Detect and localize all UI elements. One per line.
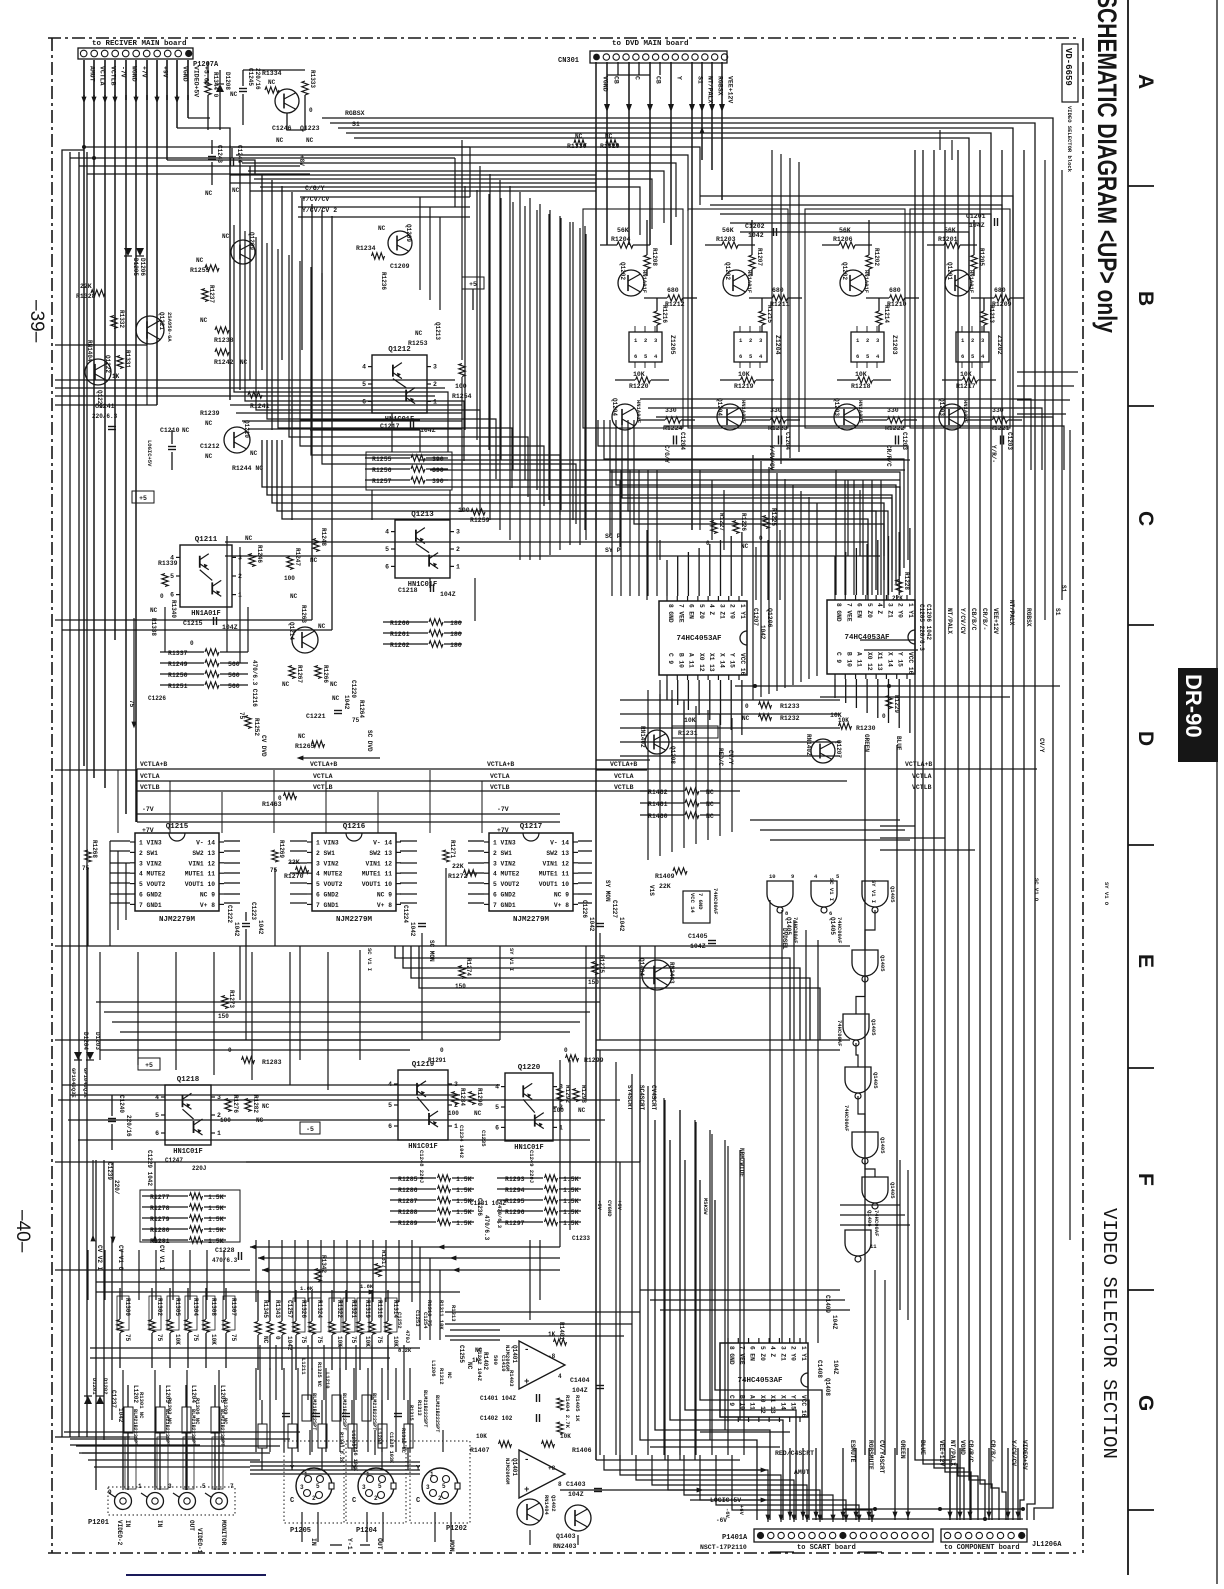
svg-text:75: 75	[192, 1334, 199, 1342]
svg-text:SC DVD: SC DVD	[366, 730, 373, 752]
svg-text:7 GND1: 7 GND1	[493, 902, 516, 909]
svg-text:P1201: P1201	[88, 1519, 109, 1527]
svg-text:HN1C01F: HN1C01F	[173, 1148, 202, 1156]
svg-text:B 10: B 10	[845, 652, 852, 667]
svg-text:HN1A01F: HN1A01F	[863, 270, 870, 293]
svg-text:VCTLA: VCTLA	[140, 773, 160, 780]
svg-text:2: 2	[749, 337, 752, 344]
svg-text:V+ 8: V+ 8	[200, 902, 215, 909]
svg-text:NJM2279M: NJM2279M	[159, 916, 196, 924]
svg-text:B: B	[1134, 291, 1157, 306]
svg-text:R1272: R1272	[448, 873, 468, 880]
svg-text:R1291: R1291	[428, 1057, 446, 1064]
svg-text:1042: 1042	[748, 232, 764, 239]
svg-text:2: 2	[312, 1495, 316, 1502]
svg-text:22K: 22K	[892, 595, 903, 602]
svg-text:R1334: R1334	[262, 70, 282, 77]
svg-text:R1269: R1269	[278, 840, 285, 858]
svg-text:RGBSMUTE: RGBSMUTE	[867, 1440, 874, 1470]
svg-text:R1249: R1249	[168, 661, 188, 668]
svg-text:VIDEO SELECTOR block: VIDEO SELECTOR block	[1066, 106, 1073, 173]
svg-text:1.5K: 1.5K	[208, 1205, 224, 1212]
svg-text:1: 1	[454, 1123, 458, 1130]
svg-text:C1205 220/6.3: C1205 220/6.3	[918, 604, 925, 651]
svg-text:R1204: R1204	[611, 236, 631, 243]
svg-text:X 14: X 14	[779, 1395, 786, 1410]
svg-text:R1318: R1318	[376, 1300, 383, 1318]
svg-text:C1245: C1245	[247, 68, 254, 86]
svg-text:Y: Y	[676, 76, 683, 80]
svg-text:560: 560	[228, 683, 240, 690]
svg-text:10K: 10K	[960, 371, 972, 378]
svg-text:6 GND2: 6 GND2	[316, 892, 339, 899]
svg-text:Q1217: Q1217	[520, 823, 543, 831]
svg-text:1042: 1042	[409, 922, 416, 937]
svg-text:GREEN: GREEN	[899, 1440, 906, 1459]
svg-text:11: 11	[870, 1243, 877, 1250]
svg-text:-7V: -7V	[497, 806, 509, 813]
svg-text:Q1223: Q1223	[300, 125, 320, 132]
svg-text:D1205: D1205	[132, 258, 139, 276]
svg-text:0: 0	[190, 640, 194, 647]
svg-text:10K: 10K	[174, 1334, 181, 1345]
svg-text:1: 1	[138, 1483, 142, 1490]
svg-text:NC: NC	[466, 1362, 473, 1370]
svg-text:1 VIN3: 1 VIN3	[139, 840, 162, 847]
svg-text:R1237: R1237	[208, 285, 215, 303]
svg-text:0: 0	[160, 593, 164, 600]
svg-text:3: 3	[456, 529, 460, 536]
svg-text:NJM2066M: NJM2066M	[504, 1458, 511, 1485]
svg-text:RN1402: RN1402	[805, 734, 812, 756]
svg-text:NC: NC	[182, 427, 190, 434]
svg-text:to COMPONENT board: to COMPONENT board	[944, 1544, 1020, 1552]
svg-text:NC: NC	[290, 593, 298, 600]
svg-text:R1462: R1462	[648, 789, 668, 796]
svg-text:C1220: C1220	[350, 680, 357, 698]
svg-text:BLM21B222SPT: BLM21B222SPT	[132, 1409, 138, 1446]
svg-text:to DVD MAIN board: to DVD MAIN board	[612, 40, 689, 48]
svg-text:1.5K: 1.5K	[456, 1176, 472, 1183]
svg-text:V+ 8: V+ 8	[554, 902, 569, 909]
svg-text:NJM2279M: NJM2279M	[336, 916, 373, 924]
svg-text:104Z: 104Z	[568, 1491, 584, 1498]
svg-text:R1247: R1247	[294, 548, 301, 566]
svg-text:to RECIVER MAIN board: to RECIVER MAIN board	[92, 40, 187, 48]
svg-text:10K: 10K	[684, 717, 696, 724]
svg-text:SC V1 O: SC V1 O	[1033, 878, 1040, 902]
svg-text:220/16: 220/16	[125, 1115, 132, 1137]
svg-text:R1248: R1248	[320, 528, 327, 546]
svg-text:R1305: R1305	[174, 1298, 181, 1316]
svg-text:NC: NC	[232, 187, 240, 194]
svg-text:1 VIN3: 1 VIN3	[493, 840, 516, 847]
svg-text:220J: 220J	[192, 1165, 206, 1172]
svg-text:R1233: R1233	[780, 703, 800, 710]
svg-text:D: D	[1134, 731, 1157, 746]
svg-text:NC: NC	[268, 79, 276, 86]
svg-text:R1238: R1238	[214, 337, 234, 344]
svg-text:C: C	[416, 1497, 420, 1505]
svg-text:1K: 1K	[548, 1331, 556, 1338]
svg-text:R1232: R1232	[780, 715, 800, 722]
svg-text:BLUE: BLUE	[919, 1440, 926, 1455]
svg-text:C1409: C1409	[824, 1295, 831, 1313]
svg-text:R1239: R1239	[200, 410, 220, 417]
svg-text:SY MON: SY MON	[604, 880, 611, 902]
svg-text:8: 8	[558, 1481, 562, 1488]
svg-text:R1300: R1300	[124, 1298, 131, 1316]
svg-text:56K: 56K	[944, 227, 956, 234]
svg-text:SW2 13: SW2 13	[369, 850, 392, 857]
svg-text:R1213: R1213	[988, 305, 995, 323]
svg-text:5 Z0: 5 Z0	[866, 603, 873, 618]
svg-text:74HC4053AF: 74HC4053AF	[676, 635, 722, 643]
svg-text:Z1205: Z1205	[669, 335, 676, 355]
svg-text:F: F	[1134, 1173, 1157, 1186]
svg-text:Q1405: Q1405	[872, 1072, 879, 1089]
svg-text:Q1404: Q1404	[638, 958, 645, 976]
svg-text:R1277: R1277	[150, 1194, 170, 1201]
svg-text:RGBSX: RGBSX	[345, 110, 365, 117]
svg-text:C1257: C1257	[286, 1300, 293, 1318]
svg-text:8 GND: 8 GND	[835, 603, 842, 622]
svg-text:P1205: P1205	[290, 1527, 311, 1535]
svg-text:R1404 2.7K: R1404 2.7K	[564, 1395, 571, 1429]
svg-text:1 VIN3: 1 VIN3	[316, 840, 339, 847]
svg-text:6 EN: 6 EN	[856, 603, 863, 618]
svg-text:V- 14: V- 14	[196, 840, 215, 847]
svg-text:1K: 1K	[112, 373, 120, 380]
svg-text:A 11: A 11	[688, 653, 695, 668]
svg-text:R1328: R1328	[76, 293, 96, 300]
svg-text:220/: 220/	[113, 1180, 120, 1195]
svg-text:C1241: C1241	[95, 403, 115, 410]
svg-text:C1221: C1221	[306, 713, 326, 720]
svg-text:R1340: R1340	[170, 600, 177, 618]
svg-text:R1216: R1216	[661, 305, 668, 323]
svg-text:-6V: -6V	[716, 1517, 727, 1524]
svg-text:R1250: R1250	[168, 672, 188, 679]
svg-text:3 Z1: 3 Z1	[718, 604, 725, 619]
svg-text:180: 180	[450, 631, 462, 638]
svg-text:R1278: R1278	[150, 1205, 170, 1212]
svg-text:VCTLA: VCTLA	[490, 773, 510, 780]
svg-text:SW2 13: SW2 13	[546, 850, 569, 857]
svg-text:R1409: R1409	[655, 873, 675, 880]
svg-text:C1224: C1224	[402, 905, 409, 923]
svg-text:8 GND: 8 GND	[667, 604, 674, 623]
svg-text:1.5K: 1.5K	[563, 1187, 579, 1194]
svg-text:VIN1 12: VIN1 12	[543, 860, 570, 867]
svg-text:NC: NC	[205, 420, 213, 427]
svg-text:JL1206A: JL1206A	[1032, 1541, 1062, 1549]
svg-text:C1238 103K: C1238 103K	[388, 1432, 394, 1464]
svg-text:22K: 22K	[659, 883, 671, 890]
svg-text:Q1213: Q1213	[434, 322, 441, 340]
svg-text:2: 2	[644, 337, 647, 344]
svg-text:Y 15: Y 15	[897, 652, 904, 667]
svg-text:V- 14: V- 14	[550, 840, 569, 847]
svg-text:NC: NC	[262, 1103, 270, 1110]
svg-text:C1215: C1215	[183, 620, 203, 627]
svg-text:R1220: R1220	[629, 383, 649, 390]
svg-text:1.8K: 1.8K	[300, 1285, 314, 1292]
svg-text:Q1201: Q1201	[946, 262, 953, 280]
svg-text:Q1222: Q1222	[104, 355, 111, 373]
svg-text:NC: NC	[230, 91, 238, 98]
svg-text:R1257: R1257	[372, 478, 392, 485]
svg-text:CV DVD: CV DVD	[260, 735, 267, 757]
svg-text:560: 560	[228, 672, 240, 679]
svg-text:to SCART board: to SCART board	[797, 1544, 856, 1552]
svg-text:L1210: L1210	[324, 1372, 331, 1389]
svg-text:VCC 14: VCC 14	[689, 893, 696, 914]
svg-text:75: 75	[238, 712, 245, 720]
svg-text:MUTE1 11: MUTE1 11	[539, 871, 569, 878]
svg-text:NC: NC	[245, 535, 253, 542]
svg-text:75: 75	[156, 1334, 163, 1342]
svg-text:NC: NC	[282, 681, 290, 688]
svg-text:CB/B/C: CB/B/C	[970, 608, 977, 631]
svg-text:R1268: R1268	[91, 840, 98, 858]
svg-text:104Z: 104Z	[440, 591, 456, 598]
svg-text:Q1216: Q1216	[343, 823, 366, 831]
svg-text:500: 500	[492, 1355, 499, 1365]
svg-text:3 Z1: 3 Z1	[779, 1346, 786, 1361]
svg-text:VOUT1 10: VOUT1 10	[185, 881, 215, 888]
svg-text:Q1213: Q1213	[411, 511, 434, 519]
svg-text:Q1204: Q1204	[716, 398, 723, 416]
svg-text:ESMUTE: ESMUTE	[849, 1440, 856, 1463]
svg-text:C1405: C1405	[688, 933, 708, 940]
svg-text:R1284: R1284	[459, 1088, 466, 1106]
svg-text:R1461: R1461	[648, 801, 668, 808]
svg-text:5 Z0: 5 Z0	[698, 604, 705, 619]
svg-text:CR/B/-: CR/B/-	[981, 608, 988, 630]
svg-text:22K: 22K	[452, 863, 464, 870]
svg-text:5: 5	[378, 1483, 382, 1490]
svg-text:NC: NC	[196, 257, 204, 264]
svg-text:3: 3	[300, 1484, 304, 1491]
svg-text:VCTLB: VCTLB	[313, 784, 333, 791]
svg-text:5: 5	[316, 1483, 320, 1490]
svg-text:VCC 16: VCC 16	[800, 1395, 807, 1418]
svg-text:+5: +5	[469, 281, 477, 288]
svg-text:Q1402: Q1402	[550, 1495, 557, 1512]
svg-text:8 GND: 8 GND	[728, 1346, 735, 1365]
svg-text:1042: 1042	[343, 695, 350, 710]
svg-text:X 14: X 14	[718, 653, 725, 668]
svg-text:10K: 10K	[364, 1336, 371, 1347]
svg-text:NC: NC	[742, 715, 750, 722]
svg-text:RN1404: RN1404	[543, 1495, 550, 1516]
svg-text:-: -	[524, 1455, 529, 1465]
svg-text:7 VEE: 7 VEE	[677, 604, 684, 623]
svg-text:R1218: R1218	[851, 383, 871, 390]
svg-text:150: 150	[588, 979, 599, 986]
svg-text:Q1202: Q1202	[841, 262, 848, 280]
svg-text:IN: IN	[156, 1520, 163, 1528]
svg-text:VCTLA: VCTLA	[614, 773, 634, 780]
svg-text:0: 0	[882, 713, 886, 720]
svg-text:C1255: C1255	[458, 1345, 465, 1363]
svg-text:1: 1	[217, 1130, 221, 1137]
svg-text:10K: 10K	[560, 1433, 571, 1440]
svg-text:R1296: R1296	[505, 1209, 525, 1216]
svg-text:HN1A01F: HN1A01F	[746, 270, 753, 293]
svg-text:R1280: R1280	[150, 1227, 170, 1234]
svg-text:VCC 16: VCC 16	[739, 653, 746, 676]
svg-text:1.8K: 1.8K	[360, 1283, 374, 1290]
svg-text:R1316 NC: R1316 NC	[400, 1428, 406, 1453]
svg-text:R1301 NC: R1301 NC	[138, 1392, 145, 1419]
svg-text:5: 5	[362, 381, 366, 388]
svg-text:2 SW1: 2 SW1	[139, 850, 158, 857]
svg-text:6: 6	[385, 563, 389, 570]
svg-text:R1242: R1242	[214, 359, 234, 366]
svg-text:C1228: C1228	[215, 1247, 235, 1254]
svg-text:1 Y1: 1 Y1	[739, 604, 746, 619]
svg-text:R1345: R1345	[262, 1300, 269, 1318]
svg-text:4 Z: 4 Z	[708, 604, 715, 615]
svg-text:+8: +8	[548, 1465, 556, 1472]
svg-text:VEE+12V: VEE+12V	[992, 608, 999, 634]
svg-text:1 Y1: 1 Y1	[907, 603, 914, 618]
svg-text:RN2403: RN2403	[553, 1543, 577, 1550]
svg-text:BLM21B222SPT: BLM21B222SPT	[422, 1390, 428, 1427]
svg-text:SCHEMATIC DIAGRAM <UP> only: SCHEMATIC DIAGRAM <UP> only	[1091, 0, 1121, 333]
svg-text:R1460: R1460	[648, 813, 668, 820]
svg-text:SC4SCRT: SC4SCRT	[638, 1085, 645, 1111]
svg-text:Q1220: Q1220	[518, 1064, 541, 1072]
svg-text:10K: 10K	[210, 1334, 217, 1345]
svg-text:180: 180	[450, 620, 462, 627]
svg-text:C1203: C1203	[901, 432, 908, 450]
svg-text:R1255: R1255	[190, 267, 210, 274]
svg-text:X1 13: X1 13	[708, 653, 715, 672]
svg-text:R1293: R1293	[505, 1176, 525, 1183]
svg-text:BLUE: BLUE	[895, 736, 902, 751]
svg-text:R1274: R1274	[465, 958, 472, 976]
svg-text:P1202: P1202	[446, 1525, 467, 1533]
svg-text:VCTLA+B: VCTLA+B	[487, 761, 514, 768]
svg-text:CVGND: CVGND	[606, 1200, 613, 1217]
svg-text:R1282: R1282	[252, 1095, 259, 1113]
svg-text:0: 0	[274, 1336, 281, 1340]
svg-text:R1256: R1256	[372, 467, 392, 474]
svg-text:R1325 NC: R1325 NC	[316, 1362, 322, 1387]
svg-text:R1285: R1285	[398, 1176, 418, 1183]
svg-text:CV V1 I: CV V1 I	[158, 1245, 165, 1271]
svg-text:7 GND: 7 GND	[697, 893, 704, 910]
svg-text:100: 100	[553, 1107, 564, 1114]
svg-text:Y-1: Y-1	[346, 1538, 353, 1550]
svg-text:C1236: C1236	[476, 1198, 483, 1216]
svg-text:9: 9	[791, 873, 794, 880]
svg-text:5: 5	[202, 1483, 206, 1490]
svg-text:OUT: OUT	[376, 1538, 383, 1550]
svg-text:C1243: C1243	[216, 145, 223, 163]
svg-text:Q1215: Q1215	[166, 823, 189, 831]
svg-text:NC: NC	[262, 1336, 269, 1344]
svg-text:1042: 1042	[759, 625, 766, 640]
svg-text:VCTLA+B: VCTLA+B	[610, 761, 637, 768]
svg-text:A 11: A 11	[749, 1395, 756, 1410]
svg-text:680: 680	[889, 287, 901, 294]
svg-text:CV4SCRT: CV4SCRT	[650, 1085, 657, 1111]
svg-text:-: -	[524, 1345, 529, 1355]
svg-text:NSCT-17P2110: NSCT-17P2110	[700, 1544, 747, 1551]
svg-text:Q1218: Q1218	[177, 1076, 200, 1084]
svg-text:X0 12: X0 12	[866, 652, 873, 671]
svg-text:2 Y0: 2 Y0	[729, 604, 736, 619]
svg-text:C 9: C 9	[667, 653, 674, 664]
svg-text:R1253: R1253	[408, 340, 428, 347]
svg-text:RED/C4SCRT: RED/C4SCRT	[775, 1450, 814, 1457]
svg-text:C1252: C1252	[396, 1312, 403, 1329]
svg-text:22K: 22K	[80, 283, 92, 290]
svg-text:+5: +5	[139, 495, 147, 502]
svg-text:10K: 10K	[838, 717, 849, 724]
svg-text:IN: IN	[124, 1520, 131, 1528]
svg-text:C1234 1042: C1234 1042	[458, 1125, 465, 1158]
svg-text:4 Z: 4 Z	[769, 1346, 776, 1357]
svg-text:1.5K: 1.5K	[456, 1220, 472, 1227]
svg-text:Z1202: Z1202	[996, 335, 1003, 355]
svg-text:2: 2	[971, 337, 974, 344]
svg-text:C1229 1042: C1229 1042	[146, 1150, 153, 1186]
svg-text:+5: +5	[145, 1062, 153, 1069]
svg-text:C1222: C1222	[226, 905, 233, 923]
svg-text:1.5K: 1.5K	[456, 1209, 472, 1216]
svg-text:CV/Y: CV/Y	[727, 750, 734, 765]
svg-text:D1202: D1202	[102, 1378, 109, 1395]
svg-text:1.5K: 1.5K	[208, 1216, 224, 1223]
svg-text:4: 4	[385, 529, 389, 536]
svg-text:R1302: R1302	[156, 1298, 163, 1316]
svg-text:R1261: R1261	[390, 631, 410, 638]
svg-text:VIDEO-1: VIDEO-1	[196, 1528, 203, 1554]
svg-text:6: 6	[362, 398, 366, 405]
svg-text:R1286: R1286	[398, 1187, 418, 1194]
svg-text:C1233: C1233	[572, 1235, 590, 1242]
svg-text:SW2 13: SW2 13	[192, 850, 215, 857]
svg-text:470/6.3 C1216: 470/6.3 C1216	[251, 660, 258, 707]
svg-text:DR-90: DR-90	[1181, 674, 1206, 738]
svg-text:10K: 10K	[738, 371, 750, 378]
svg-text:560: 560	[228, 661, 240, 668]
svg-text:R1230: R1230	[856, 725, 876, 732]
svg-text:0: 0	[309, 107, 313, 114]
svg-text:V1S: V1S	[648, 885, 655, 896]
svg-text:NJM2279M: NJM2279M	[513, 916, 550, 924]
svg-text:470/6.3: 470/6.3	[496, 1205, 503, 1229]
svg-text:+8V: +8V	[298, 155, 305, 166]
svg-text:NC: NC	[205, 190, 213, 197]
svg-text:CV V2 I: CV V2 I	[96, 1245, 103, 1271]
svg-text:NC: NC	[378, 225, 386, 232]
svg-text:R1231: R1231	[678, 730, 698, 737]
svg-text:6 EN: 6 EN	[688, 604, 695, 619]
svg-text:R1255: R1255	[372, 456, 392, 463]
svg-text:6: 6	[829, 910, 832, 917]
svg-text:4 MUTE2: 4 MUTE2	[139, 871, 166, 878]
svg-text:VIN1 12: VIN1 12	[189, 860, 216, 867]
svg-text:GREEN: GREEN	[863, 734, 870, 752]
svg-text:R1313: R1313	[416, 1400, 422, 1416]
svg-text:NC: NC	[250, 450, 258, 457]
